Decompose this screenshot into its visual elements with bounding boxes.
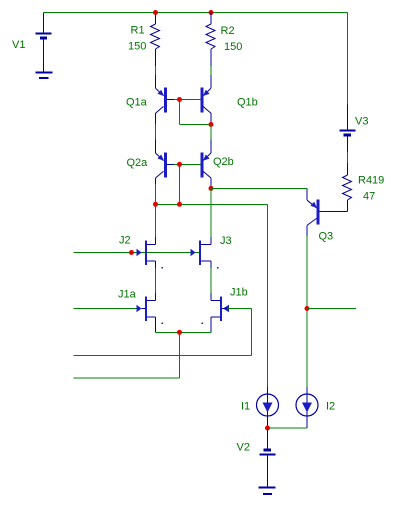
- ground (V2): [259, 487, 276, 496]
- wire Q1b collector to Q2b emitter: [210, 125, 212, 140]
- wire Q3 collector down: [306, 236, 308, 387]
- svg-text:J2: J2: [119, 235, 131, 247]
- wire V3 to R419: [347, 152, 349, 163]
- wire J1 sources: [156, 331, 212, 333]
- svg-text:V3: V3: [355, 116, 368, 128]
- node dot Q2b collector: [209, 186, 214, 191]
- transistor Q2a: [156, 140, 175, 184]
- wire Q2a collector to J2 drain: [155, 204, 157, 237]
- wire Q1 bases: [174, 100, 211, 125]
- resistor R1: [151, 13, 160, 67]
- svg-text:Q1a: Q1a: [126, 97, 148, 109]
- svg-text:47: 47: [363, 191, 375, 203]
- battery V3: [340, 105, 356, 153]
- wire J3 source to J1b drain: [210, 268, 212, 293]
- battery V2: [260, 428, 276, 487]
- svg-text:V1: V1: [12, 39, 25, 51]
- node dot Q2 base tie: [177, 202, 182, 207]
- wire I2 bottom to V2 node: [268, 427, 308, 429]
- battery V1: [36, 13, 52, 72]
- wire Q2b collector to J3 drain: [210, 188, 212, 237]
- svg-text:R2: R2: [221, 25, 235, 37]
- svg-text:I1: I1: [241, 401, 250, 413]
- wire Q2a collector down: [155, 184, 157, 204]
- wire Q2b collector to Q3 emitter: [211, 187, 307, 189]
- svg-text:J1a: J1a: [118, 289, 137, 301]
- svg-text:I2: I2: [326, 401, 335, 413]
- wire output stub: [307, 308, 356, 310]
- JFET J1b: [211, 293, 234, 332]
- wire J1 source tail: [74, 332, 180, 378]
- svg-text:R419: R419: [358, 175, 384, 187]
- pin mark J1b: [202, 323, 204, 325]
- transistor Q1a: [156, 75, 175, 124]
- JFET J2: [137, 237, 156, 268]
- svg-text:Q1b: Q1b: [237, 97, 258, 109]
- node dot Q2 bases: [177, 162, 182, 167]
- wire R2 to Q1b: [210, 66, 212, 75]
- resistor R419: [320, 163, 352, 212]
- wire R1 to Q1a: [155, 66, 157, 75]
- wire V3 top drop: [347, 13, 349, 105]
- node dot Q1 bases: [177, 97, 182, 102]
- wire mirror node to current source I1: [156, 204, 268, 387]
- wire input to J1a gate: [74, 308, 137, 310]
- node dot top rail / R2: [209, 10, 214, 15]
- JFET J1a: [137, 293, 156, 332]
- current source I2: [296, 387, 318, 428]
- wire Q1a collector to Q2a emitter: [155, 124, 157, 140]
- transistor Q2b: [201, 140, 212, 189]
- svg-text:J3: J3: [220, 235, 232, 247]
- wire J2 gate to J3 gate: [146, 252, 199, 254]
- node dot Q2a collector: [153, 202, 158, 207]
- resistor R2: [206, 13, 215, 67]
- wire Q2 bases: [174, 164, 201, 204]
- pin mark J1a: [162, 323, 164, 325]
- wire J2 source to J1a drain: [155, 268, 157, 293]
- svg-text:150: 150: [128, 41, 146, 53]
- transistor Q3: [307, 188, 320, 236]
- ground (V1): [36, 72, 53, 80]
- svg-text:V2: V2: [237, 442, 250, 454]
- wire top rail: [44, 12, 348, 14]
- node dot J1 sources: [177, 330, 182, 335]
- current source I1: [257, 387, 279, 428]
- transistor Q1b: [201, 75, 212, 124]
- node dot J2 gate: [129, 250, 134, 255]
- node dot top rail / R1: [153, 10, 158, 15]
- svg-text:Q2a: Q2a: [127, 157, 149, 169]
- wire J1b gate feed: [74, 309, 252, 356]
- pin mark J3: [217, 267, 219, 269]
- node dot Q3 collector: [305, 306, 310, 311]
- svg-text:Q2b: Q2b: [213, 156, 234, 168]
- node dot V2 top: [265, 426, 270, 431]
- svg-text:J1b: J1b: [230, 287, 248, 299]
- node dot Q1b collector tie: [209, 122, 214, 127]
- JFET J3: [191, 237, 212, 268]
- pin mark J2: [162, 267, 164, 269]
- svg-text:150: 150: [224, 41, 242, 53]
- svg-text:R1: R1: [131, 25, 145, 37]
- wire input to J2 gate: [74, 252, 147, 254]
- svg-text:Q3: Q3: [319, 231, 334, 243]
